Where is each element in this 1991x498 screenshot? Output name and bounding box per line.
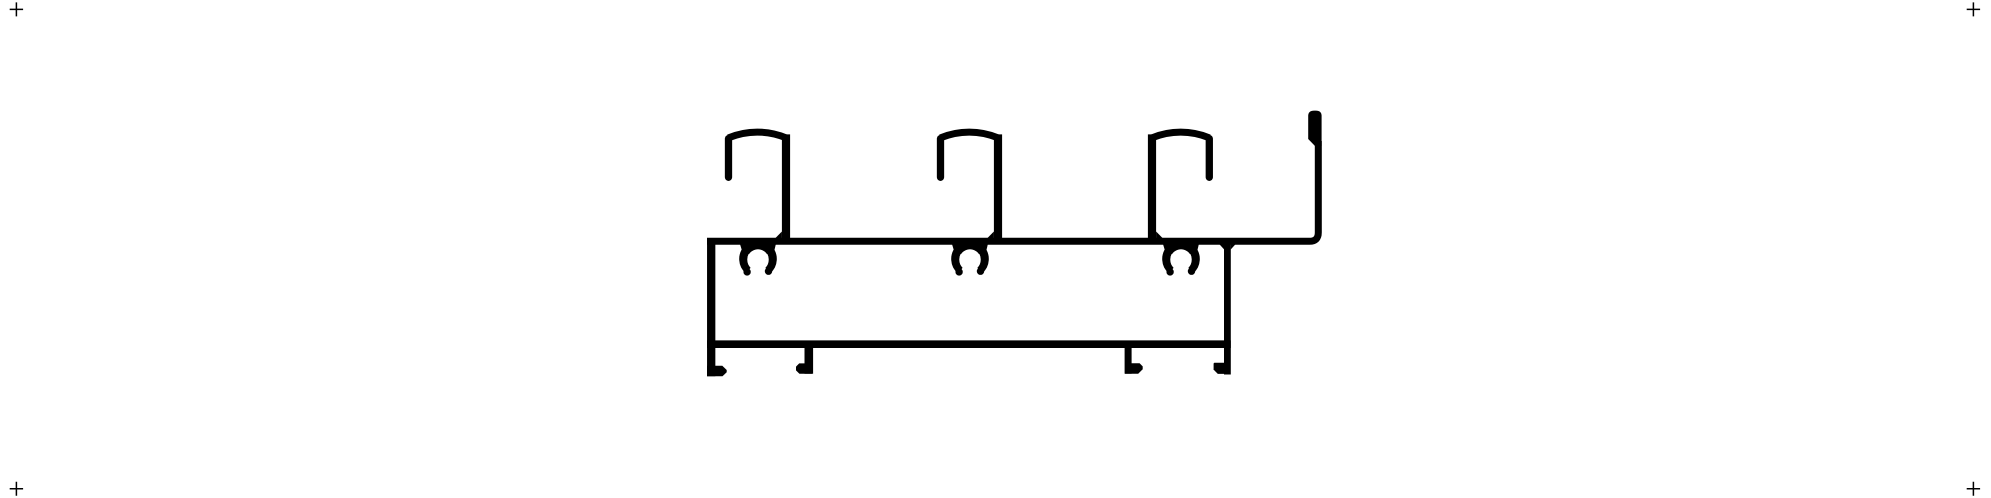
main box left wall and foot (707, 238, 715, 376)
main box bottom bar (707, 340, 1231, 348)
right wall top fillet left (1220, 244, 1225, 249)
hook 1 long leg (782, 134, 790, 241)
main box right wall and foot (1224, 238, 1231, 375)
hook 3 leg-bar fillet (1156, 232, 1163, 240)
hook 2 short leg (937, 139, 944, 178)
foot 2 rib (804, 346, 813, 374)
C-ring clip 2 flare (951, 242, 988, 255)
hook 2 leg-bar fillet (987, 232, 994, 240)
C-ring clip 1 ring (743, 244, 772, 270)
main box top bar with right hook vertical (707, 141, 1318, 241)
C-ring clip 3 flare (1162, 242, 1199, 255)
C-ring clip 2 hole (959, 249, 980, 270)
hook 2 arch (941, 132, 999, 138)
C-ring clip 1 hole (747, 249, 768, 270)
hook 2 long leg (994, 134, 1002, 241)
foot 3 rib (1125, 346, 1132, 374)
registration mark bottom-right (1967, 482, 1980, 496)
hook 1 short leg (725, 139, 732, 178)
foot 2 toe (796, 363, 812, 373)
hook 1 arch (729, 132, 787, 138)
hook 3 arch (1152, 132, 1209, 138)
foot 4 toe (1214, 363, 1230, 374)
C-ring clip 3 ring (1166, 244, 1195, 270)
right hook top bulb (1308, 111, 1321, 146)
hook 1 leg-bar fillet (775, 232, 782, 240)
registration mark top-right (1967, 2, 1980, 16)
foot 1 toe (707, 366, 727, 376)
C-ring clip 1 flare (739, 242, 776, 255)
C-ring clip 1 tips (743, 268, 750, 275)
C-ring clip 3 tips (1166, 268, 1173, 275)
C-ring clip 2 tips (955, 268, 962, 275)
right wall top fillet right (1231, 244, 1236, 249)
registration mark bottom-left (10, 482, 23, 496)
hook 3 long leg (1148, 134, 1156, 241)
registration mark top-left (10, 2, 23, 16)
C-ring clip 3 hole (1170, 249, 1191, 270)
hook 3 short leg (1206, 139, 1213, 178)
foot 3 toe (1125, 363, 1143, 374)
C-ring clip 2 ring (955, 244, 984, 270)
